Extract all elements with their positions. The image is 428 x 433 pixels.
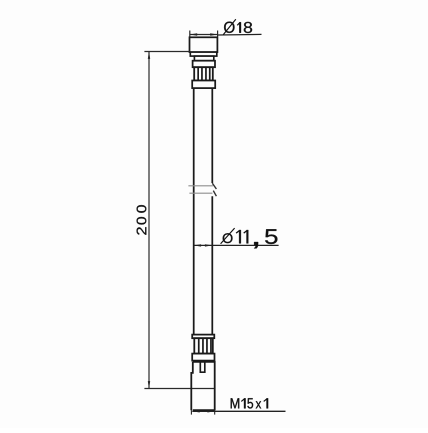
dimension 200 top extension line xyxy=(144,51,189,53)
dimension Ø18 leader line xyxy=(218,33,262,36)
dimension 200 arrow top xyxy=(148,52,150,59)
label Ø18 xyxy=(223,19,252,34)
threaded end body outline xyxy=(191,362,214,410)
lower ferrule bottom flange xyxy=(192,354,214,361)
dimension Ø11,5 arrow left xyxy=(194,244,201,246)
label M15x1 xyxy=(231,398,268,408)
upper ferrule bottom flange xyxy=(192,81,215,89)
dimension M15x1 arrow left xyxy=(192,410,199,412)
dimension 200 dimension line xyxy=(148,52,150,389)
dimension Ø11,5 dimension line xyxy=(194,244,279,246)
dimension Ø18 extension line left xyxy=(189,31,191,37)
hose left wall xyxy=(193,88,195,335)
dimension 200 arrow bottom xyxy=(148,381,150,388)
dimension Ø18 arrow right xyxy=(210,33,217,35)
label 200 xyxy=(137,205,147,235)
hose right wall upper segment xyxy=(211,88,213,183)
M15 extension tick right xyxy=(214,410,216,414)
upper ferrule knurl xyxy=(194,67,213,80)
dimension 200 bottom extension line xyxy=(144,388,214,390)
break line upper zigzag tail xyxy=(212,183,216,189)
dimension M15x1 arrow right xyxy=(207,410,214,412)
break line lower zigzag tail xyxy=(213,191,216,197)
M15 extension tick left xyxy=(190,410,192,414)
break line lower xyxy=(189,192,212,194)
lower ferrule knurl xyxy=(194,338,213,353)
upper ferrule top flange xyxy=(193,61,215,67)
lower ferrule top flange xyxy=(192,335,214,339)
threaded end slot xyxy=(200,362,205,372)
dimension M15x1 dimension line xyxy=(192,410,285,412)
upper neck xyxy=(194,56,213,61)
label Ø11,5 xyxy=(221,228,278,248)
cap nut top body xyxy=(190,37,218,52)
break line upper xyxy=(188,185,213,187)
cap nut bottom lip xyxy=(190,52,217,56)
hose right wall lower segment xyxy=(211,196,213,334)
dimension Ø18 dimension line xyxy=(190,34,218,36)
dimension Ø18 extension line right xyxy=(217,31,219,37)
dimension Ø11,5 arrow right xyxy=(205,244,212,246)
dimension Ø18 arrow left xyxy=(190,33,197,35)
